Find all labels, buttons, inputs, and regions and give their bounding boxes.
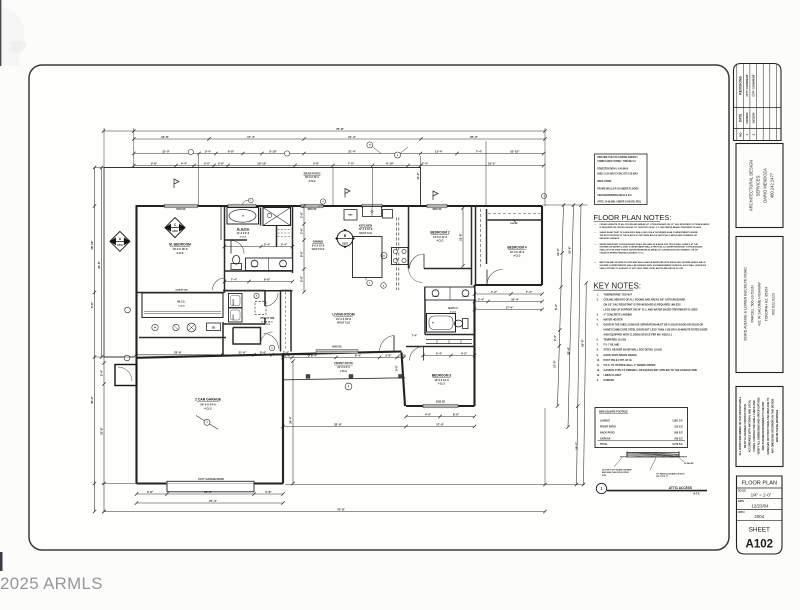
- oven box: [383, 210, 393, 219]
- window: [301, 204, 323, 208]
- sheet title block: [737, 476, 783, 554]
- scan edge artifacts top-left: [0, 0, 1, 66]
- svg-text:WATER RESISTANT GYPSUM BOARD S: WATER RESISTANT GYPSUM BOARD SHALL BE US…: [600, 243, 699, 246]
- svg-text:JOB #: JOB #: [738, 512, 745, 514]
- svg-text:4'-6": 4'-6": [425, 412, 432, 416]
- svg-text:DAMAGES OR STRUCTURAL FAILURES: DAMAGES OR STRUCTURAL FAILURES DUE TO: [767, 398, 770, 455]
- svg-text:DRYER: DRYER: [233, 313, 235, 319]
- svg-text:3,278 S.F.: 3,278 S.F.: [672, 443, 683, 446]
- svg-text:5'-4": 5'-4": [205, 149, 212, 153]
- svg-text:6'-8": 6'-8": [228, 149, 235, 153]
- detail marker 1 attic access: [596, 483, 606, 493]
- svg-text:5'-4": 5'-4": [260, 351, 267, 355]
- svg-text:F.V. 7 ISLAND: F.V. 7 ISLAND: [604, 344, 620, 347]
- svg-text:16'-10": 16'-10": [90, 240, 94, 250]
- svg-text:52'-0": 52'-0": [581, 338, 585, 346]
- bath2 hall linen: [426, 339, 472, 341]
- svg-text:21'-4": 21'-4": [348, 135, 356, 139]
- svg-text:4'-4": 4'-4": [181, 161, 188, 165]
- svg-text:FENESTRATION U-0.40 MAX: FENESTRATION U-0.40 MAX: [597, 167, 628, 170]
- section marker A/A301: [110, 231, 130, 251]
- svg-text:CEILING HEIGHTS OF ALL ROOMS A: CEILING HEIGHTS OF ALL ROOMS AND AREAS 5…: [600, 223, 711, 226]
- dimension line x=104: [103, 357, 105, 512]
- svg-text:ANY OMISSIONS OR ERRORS IN THI: ANY OMISSIONS OR ERRORS IN THIS DESIGN: [771, 399, 774, 454]
- left extension to garage bottom: [102, 483, 137, 485]
- svg-text:TEMPERED GLASS: TEMPERED GLASS: [604, 339, 627, 342]
- svg-text:7'-4": 7'-4": [476, 149, 483, 153]
- svg-text:13'-8": 13'-8": [161, 135, 169, 139]
- svg-text:15'-0": 15'-0": [162, 149, 170, 153]
- dimension line y=426.5: [283, 426, 475, 428]
- svg-text:3'-0": 3'-0": [204, 161, 211, 165]
- svg-text:30'-4": 30'-4": [566, 346, 570, 354]
- svg-text:KEY NOTES:: KEY NOTES:: [594, 281, 642, 290]
- north arrow triangles: [253, 330, 257, 337]
- svg-text:4" CONCRETE LANDING: 4" CONCRETE LANDING: [604, 314, 633, 317]
- dimension line y=281.5: [225, 281, 293, 283]
- svg-text:13'-8": 13'-8": [100, 426, 104, 434]
- svg-text:FLOOR PLAN NOTES:: FLOOR PLAN NOTES:: [594, 213, 672, 222]
- svg-text:8'-4": 8'-4": [355, 353, 362, 357]
- svg-text:3'-8": 3'-8": [313, 161, 320, 165]
- kitchen sink at window: [363, 207, 382, 217]
- svg-text:9'-0": 9'-0": [394, 364, 398, 371]
- svg-text:11'-4": 11'-4": [556, 248, 560, 256]
- revisions table block: [734, 64, 782, 141]
- kitchen island: [353, 237, 383, 278]
- svg-text:5'-6": 5'-6": [90, 301, 94, 308]
- svg-text:5'-0 X 10'-6: 5'-0 X 10'-6: [261, 321, 273, 323]
- svg-text:KITCHEN: KITCHEN: [359, 223, 372, 227]
- svg-text:10/15/24: 10/15/24: [752, 112, 756, 123]
- svg-text:12'-0 X 12'-0: 12'-0 X 12'-0: [434, 379, 449, 382]
- svg-text:ACCORDANCE WITH NATIONAL AND L: ACCORDANCE WITH NATIONAL AND LOCAL: [748, 399, 751, 452]
- bedroom4 closet rod dashed: [488, 213, 541, 215]
- svg-text:SHEET: SHEET: [749, 527, 770, 534]
- svg-text:5068 BP DW: 5068 BP DW: [175, 290, 187, 292]
- hall closet door arc: [261, 332, 273, 344]
- svg-text:A381: A381: [172, 230, 178, 233]
- svg-text:VERIFY ALL DIMENSIONS AND SPEC: VERIFY ALL DIMENSIONS AND SPECIFICATIONS: [758, 397, 761, 454]
- project address block: [736, 237, 783, 373]
- svg-text:9'-6": 9'-6": [300, 250, 304, 257]
- svg-text:TOTAL: TOTAL: [600, 443, 608, 446]
- svg-text:ATTIC ACCESS: ATTIC ACCESS: [669, 486, 692, 490]
- svg-text:A102: A102: [746, 539, 774, 551]
- svg-text:14'-0": 14'-0": [416, 172, 420, 180]
- svg-text:HONEYCOMB CORE STEEL DOOR NOT: HONEYCOMB CORE STEEL DOOR NOT LESS THAN …: [604, 329, 708, 332]
- svg-text:REF: REF: [348, 215, 353, 217]
- svg-text:ON 1/2" SAG RESISTANT GYPSUM B: ON 1/2" SAG RESISTANT GYPSUM BOARD IS RE…: [604, 303, 681, 306]
- svg-text:SHALL NOT BE USED OVER A VAPOR: SHALL NOT BE USED OVER A VAPOR RETARDER …: [600, 249, 699, 252]
- range: [392, 248, 409, 265]
- right dimension chains (slight scan lean): [558, 205, 564, 406]
- svg-text:8'-4": 8'-4": [311, 353, 318, 357]
- svg-text:# CLG: # CLG: [309, 181, 316, 183]
- window: [165, 204, 198, 208]
- svg-text:# CLG: # CLG: [240, 236, 247, 238]
- closet center dashed line: [285, 292, 287, 350]
- svg-text:2'-4": 2'-4": [281, 242, 288, 246]
- svg-text:# CLG: # CLG: [340, 371, 347, 373]
- svg-text:SHOWER COMPARTMENTS SHALL BE F: SHOWER COMPARTMENTS SHALL BE FINISHED WI…: [600, 264, 707, 267]
- svg-text:BATH 2: BATH 2: [448, 306, 458, 310]
- svg-text:# CLG: # CLG: [264, 324, 271, 326]
- svg-text:ALL WORK PERFORMED ON THIS DES: ALL WORK PERFORMED ON THIS DESIGN SHALL: [739, 396, 742, 455]
- svg-text:5'-0": 5'-0": [300, 275, 304, 282]
- svg-text:17'-4": 17'-4": [506, 305, 514, 309]
- svg-text:THERMOPANE TGD 40 P: THERMOPANE TGD 40 P: [604, 293, 633, 296]
- svg-text:FRONT PATIO: FRONT PATIO: [334, 361, 353, 365]
- svg-text:6040 SG: 6040 SG: [332, 345, 342, 348]
- svg-text:56'-0 X 10'-0: 56'-0 X 10'-0: [305, 176, 319, 179]
- svg-text:13'-6": 13'-6": [568, 245, 572, 253]
- left closet bump: [115, 365, 137, 386]
- dimension line x=94.5: [94, 168, 96, 512]
- svg-text:SHALL EXTEND TO A HEIGHT OF NO: SHALL EXTEND TO A HEIGHT OF NOT LESS THA…: [600, 267, 684, 270]
- dimension line y=494: [137, 493, 284, 495]
- svg-text:21'-0": 21'-0": [239, 351, 247, 355]
- svg-text:SLABS IN ANY PART OF A BUILDIN: SLABS IN ANY PART OF A BUILDING SHALL EN…: [600, 231, 699, 234]
- svg-text:COMPLIANCE THREE: TOW ME 5.2: COMPLIANCE THREE: TOW ME 5.2: [597, 160, 636, 163]
- svg-text:5'-4": 5'-4": [436, 351, 443, 355]
- svg-text:# CLG: # CLG: [438, 383, 445, 385]
- window: [427, 204, 447, 208]
- svg-text:30'-0": 30'-0": [90, 395, 94, 403]
- svg-text:10'-4": 10'-4": [511, 297, 519, 301]
- svg-text:M. BATH: M. BATH: [237, 227, 249, 231]
- master toilet: [231, 264, 242, 270]
- svg-text:1'-6": 1'-6": [285, 353, 292, 357]
- svg-text:5068 BP: 5068 BP: [510, 223, 518, 225]
- svg-text:5'-8": 5'-8": [147, 490, 154, 494]
- svg-text:DATE: DATE: [738, 114, 742, 122]
- bath2 vanity: [425, 287, 475, 300]
- architect info block: [736, 144, 783, 228]
- washer dryer: [229, 294, 243, 308]
- svg-text:INSULATION:: INSULATION:: [597, 180, 612, 183]
- svg-text:VAULT CLG: VAULT CLG: [312, 248, 325, 251]
- window: [228, 204, 256, 208]
- svg-text:BACK PATIO: BACK PATIO: [600, 432, 615, 435]
- svg-text:6'-10": 6'-10": [386, 161, 394, 165]
- svg-text:14'-8 X 11'-0: 14'-8 X 11'-0: [433, 236, 448, 239]
- svg-text:2004: 2004: [754, 514, 764, 519]
- svg-text:19'-2": 19'-2": [488, 161, 496, 165]
- svg-text:12.: 12.: [597, 370, 601, 372]
- rear patio outline: [104, 168, 421, 358]
- svg-text:3050 SC: 3050 SC: [432, 208, 442, 211]
- svg-text:DARIO MENDOZA: DARIO MENDOZA: [763, 168, 768, 203]
- svg-text:AND ASSUME RESPONSIBILITY FOR: AND ASSUME RESPONSIBILITY FOR ANY: [762, 401, 765, 450]
- linen shelves dashed: [278, 229, 292, 231]
- svg-text:FLOOR PLAN: FLOOR PLAN: [742, 480, 777, 486]
- svg-text:2'-4": 2'-4": [478, 297, 485, 301]
- svg-text:75'-8": 75'-8": [337, 507, 345, 511]
- svg-text:13'-4": 13'-4": [435, 149, 443, 153]
- svg-text:10'-0 X 13'-2: 10'-0 X 13'-2: [510, 251, 525, 254]
- svg-text:LEGS AND UP SUPPORT ON 24" O.C: LEGS AND UP SUPPORT ON 24" O.C. AND WATE…: [604, 308, 698, 311]
- svg-text:LIVABLE: LIVABLE: [600, 420, 610, 423]
- master shower: [263, 208, 291, 226]
- svg-text:TONOPAH AZ, 85354: TONOPAH AZ, 85354: [765, 287, 769, 322]
- svg-text:A.: A.: [597, 379, 600, 382]
- svg-text:NEW SQUARE FOOTAGE: NEW SQUARE FOOTAGE: [599, 411, 628, 414]
- kitchen leader circles: [365, 278, 367, 281]
- dimension line x=293: [292, 361, 294, 484]
- dimension line x=304: [303, 206, 305, 292]
- svg-text:1,801 S.F.: 1,801 S.F.: [672, 420, 683, 423]
- svg-text:796 S.F.: 796 S.F.: [674, 438, 683, 441]
- bedroom3 door arc: [410, 347, 424, 361]
- dimension line y=153.5: [134, 153, 544, 155]
- svg-text:SHOWER OR WATER CLOSET COMPART: SHOWER OR WATER CLOSET COMPARTMENT WALLS…: [600, 246, 704, 249]
- svg-text:602.622.6223: 602.622.6223: [772, 293, 776, 315]
- svg-text:8'-4": 8'-4": [554, 303, 558, 310]
- svg-text:2'-4": 2'-4": [553, 334, 557, 341]
- svg-text:393RD AVENUE & LOWER BUCKEYE R: 393RD AVENUE & LOWER BUCKEYE ROAD: [744, 267, 748, 341]
- svg-text:11.: 11.: [597, 365, 600, 367]
- svg-text:33'-8": 33'-8": [97, 260, 101, 268]
- svg-text:9'-6 X 13'-8: 9'-6 X 13'-8: [312, 244, 325, 247]
- svg-text:SERVICES:: SERVICES:: [756, 175, 761, 197]
- svg-text:PARCEL: 506-33-531N: PARCEL: 506-33-531N: [751, 285, 755, 322]
- window: [316, 350, 358, 354]
- svg-text:7'-4": 7'-4": [412, 334, 418, 338]
- svg-text:25'-0": 25'-0": [470, 135, 478, 139]
- svg-text:2'-6": 2'-6": [385, 353, 392, 357]
- svg-text:75'-8": 75'-8": [336, 127, 344, 131]
- svg-text:FRAME WALLS R-19 UNDER FLOORS: FRAME WALLS R-19 UNDER FLOORS: [597, 188, 639, 191]
- svg-text:THE BOTTOM EDGE OF THE SLAB IS: THE BOTTOM EDGE OF THE SLAB IS 8 LOW FIN…: [600, 234, 698, 237]
- svg-text:12'-1 X 13'-8: 12'-1 X 13'-8: [359, 228, 373, 231]
- svg-text:16'-0": 16'-0": [204, 490, 212, 494]
- dimension line y=511.5: [104, 511, 545, 513]
- svg-text:2 CAR GARAGE: 2 CAR GARAGE: [195, 398, 222, 402]
- svg-text:UTILITY RM: UTILITY RM: [260, 316, 275, 320]
- svg-text:DOOR IN THE SHELL/GARAGE SEPAR: DOOR IN THE SHELL/GARAGE SEPARATION MUST…: [604, 324, 704, 327]
- svg-text:# CLG: # CLG: [514, 255, 521, 257]
- svg-text:LINEN CLOSET: LINEN CLOSET: [604, 374, 622, 377]
- svg-text:PROVIDE THE FOLLOWING ENERGY: PROVIDE THE FOLLOWING ENERGY: [597, 157, 638, 159]
- svg-text:2X RAILER: 2X RAILER: [684, 462, 694, 465]
- svg-text:11'-6": 11'-6": [459, 233, 463, 241]
- svg-text:23'-8": 23'-8": [174, 351, 182, 355]
- svg-text:HOOD VENT ABOVE RANGE: HOOD VENT ABOVE RANGE: [604, 354, 638, 357]
- pennant flags: [174, 179, 179, 188]
- svg-text:WALKING SURFACE.: WALKING SURFACE.: [600, 237, 621, 240]
- hall ceiling fixtures: [152, 324, 158, 330]
- svg-text:AND SEAL PLAN FOR ACCESS: AND SEAL PLAN FOR ACCESS: [602, 471, 630, 474]
- svg-text:2'-8": 2'-8": [300, 227, 304, 234]
- svg-text:SHGC 0.25 MAX CATALYZE 0.55 MA: SHGC 0.25 MAX CATALYZE 0.55 MAX: [597, 173, 638, 176]
- square footage table: [595, 408, 688, 448]
- scan edge sliver: [0, 552, 3, 571]
- window: [362, 204, 382, 208]
- fridge: [344, 210, 357, 221]
- svg-text:1/2" PARTICLE BOARD LID WITH: 1/2" PARTICLE BOARD LID WITH: [656, 473, 685, 476]
- section marker B/A381 circle: [335, 229, 355, 249]
- svg-text:10'-10": 10'-10": [257, 161, 267, 165]
- svg-text:GYP TYPE "X": GYP TYPE "X": [656, 476, 669, 478]
- svg-text:3'-8": 3'-8": [218, 161, 225, 165]
- svg-text:SCALE: SCALE: [738, 489, 746, 492]
- svg-text:PAINTED: PAINTED: [604, 379, 615, 382]
- svg-text:24'-0 X 8'-0: 24'-0 X 8'-0: [337, 366, 350, 369]
- svg-text:POST POLE LTYP. OF 3L: POST POLE LTYP. OF 3L: [604, 359, 633, 362]
- svg-text:5050 SC: 5050 SC: [176, 208, 186, 211]
- energy compliance note box: [595, 154, 648, 205]
- svg-text:STEEL HEADER 6/100P WALL BCE D: STEEL HEADER 6/100P WALL BCE DETAIL 1/A1…: [604, 349, 663, 352]
- dimension line y=246.5: [225, 246, 293, 248]
- disclaimer block: [736, 387, 783, 467]
- sheet border frame: [29, 65, 729, 550]
- svg-text:431 W SALOME HIGHWAY: 431 W SALOME HIGHWAY: [758, 281, 762, 326]
- svg-text:24'-4": 24'-4": [289, 415, 293, 423]
- misc circles on plan: [248, 198, 253, 203]
- svg-text:7'-4": 7'-4": [231, 277, 238, 281]
- svg-text:9'-8": 9'-8": [151, 161, 158, 165]
- svg-text:GASKEN TYPE 5.3 FIREWALL OR EQ: GASKEN TYPE 5.3 FIREWALL OR EQUIVALENT A…: [604, 369, 698, 372]
- svg-text:480.242.2477: 480.242.2477: [770, 172, 775, 198]
- section marker C/A381: [165, 218, 185, 238]
- dimension line x=101.5: [101, 168, 103, 358]
- svg-text:FRONT PATIO: FRONT PATIO: [600, 426, 616, 429]
- svg-text:5/8 TYPE X GYP BOARD TAPERED: 5/8 TYPE X GYP BOARD TAPERED: [602, 469, 632, 472]
- svg-text:32'-8": 32'-8": [334, 422, 342, 426]
- front patio outline and posts: [283, 378, 405, 380]
- svg-text:REAR PATIO: REAR PATIO: [304, 171, 322, 175]
- svg-text:DINING: DINING: [313, 240, 324, 244]
- svg-text:13'-6 X 16'-8: 13'-6 X 16'-8: [173, 247, 188, 251]
- dimension line y=354.8: [136, 354, 310, 356]
- svg-text:WATER HEATER: WATER HEATER: [604, 319, 623, 322]
- svg-text:NO: NO: [738, 132, 742, 137]
- svg-text:ARCHITECTURAL DESIGN: ARCHITECTURAL DESIGN: [749, 160, 754, 211]
- svg-text:# CLG: # CLG: [437, 240, 444, 242]
- svg-text:# CLG: # CLG: [204, 408, 211, 411]
- dimension line y=294: [475, 293, 543, 295]
- svg-text:10.: 10.: [597, 360, 601, 362]
- hall door arc near kitchen: [409, 269, 423, 283]
- svg-text:BEDROOM 3: BEDROOM 3: [432, 374, 452, 378]
- garage door opening: [167, 481, 254, 492]
- svg-text:120 S.F.: 120 S.F.: [674, 426, 683, 429]
- svg-text:DATE: DATE: [738, 500, 745, 503]
- svg-text:12/23/04: 12/23/04: [751, 503, 769, 508]
- dimension line y=357.5: [283, 357, 404, 359]
- dimension line y=131: [104, 130, 546, 132]
- svg-text:14'-2": 14'-2": [575, 441, 579, 449]
- svg-text:16'X7' GARAGE DOOR: 16'X7' GARAGE DOOR: [198, 478, 224, 481]
- svg-text:27'-4": 27'-4": [209, 499, 217, 503]
- svg-text:4'-0": 4'-0": [461, 351, 468, 355]
- svg-text:2'-6": 2'-6": [300, 211, 304, 218]
- dimension line y=503: [137, 502, 284, 504]
- svg-text:09/28/24: 09/28/24: [745, 112, 749, 123]
- svg-text:5'-8": 5'-8": [265, 490, 272, 494]
- svg-text:LIVING ROOM: LIVING ROOM: [332, 313, 354, 317]
- master bath door arc: [231, 241, 244, 254]
- svg-text:VAULT CLG: VAULT CLG: [337, 322, 350, 325]
- bath2 tub: [427, 314, 456, 333]
- svg-text:21'-0 X 19'-8: 21'-0 X 19'-8: [336, 317, 351, 321]
- svg-text:BATHTUB AND SHOWER FLOORS AND: BATHTUB AND SHOWER FLOORS AND WALLS ABOV…: [600, 261, 706, 264]
- window: [423, 404, 458, 408]
- svg-text:8'-6": 8'-6": [453, 412, 460, 416]
- dimension line y=309.5: [475, 309, 543, 311]
- svg-text:1: 1: [600, 486, 603, 491]
- master bedroom entry arc: [213, 278, 225, 290]
- svg-text:M. BEDROOM: M. BEDROOM: [169, 243, 191, 247]
- svg-text:W.I.C.: W.I.C.: [177, 300, 185, 304]
- WIC shelf line: [144, 311, 221, 313]
- svg-text:2025 ARMLS: 2025 ARMLS: [0, 574, 103, 593]
- dimension line y=416.5: [406, 416, 475, 418]
- svg-text:CODES. CONTRACTOR SHALL CHECK: CODES. CONTRACTOR SHALL CHECK AND: [753, 400, 756, 452]
- svg-text:SD: SD: [212, 325, 216, 329]
- svg-text:5'-4": 5'-4": [100, 369, 104, 376]
- utility door arc: [265, 293, 278, 306]
- svg-text:11'-0 X 9'-6: 11'-0 X 9'-6: [237, 232, 250, 235]
- dimension line x=463: [462, 208, 464, 266]
- svg-text:7'-4": 7'-4": [526, 290, 533, 294]
- svg-text:N.T.S.: N.T.S.: [693, 492, 700, 495]
- svg-text:3050 SC: 3050 SC: [307, 208, 317, 211]
- dimension line y=165.5: [134, 165, 544, 167]
- svg-text:9'-8": 9'-8": [264, 277, 271, 281]
- svg-text:24'-0 X 24'-0: 24'-0 X 24'-0: [200, 402, 216, 406]
- bedroom4 closet ticks: [513, 220, 516, 223]
- svg-text:1'-10": 1'-10": [398, 353, 406, 357]
- svg-text:17'-4": 17'-4": [247, 135, 255, 139]
- master vanity two sinks: [246, 258, 293, 271]
- svg-text:AND/OR THESE DRAWINGS: AND/OR THESE DRAWINGS: [776, 409, 779, 442]
- svg-text:BE BY A LICENSED CONTRACTOR IN: BE BY A LICENSED CONTRACTOR IN: [744, 404, 747, 448]
- bedroom4 door arc: [487, 270, 503, 286]
- svg-text:CEILINGS WHERE FRAMING EXCEEDS: CEILINGS WHERE FRAMING EXCEEDS 12 O.C.: [600, 251, 645, 254]
- svg-text:GARAGE: GARAGE: [600, 438, 611, 441]
- svg-text:2'-4": 2'-4": [264, 242, 271, 246]
- svg-text:21'-4": 21'-4": [348, 149, 356, 153]
- entry door: [393, 336, 395, 352]
- exterior walls: [136, 206, 543, 484]
- svg-text:17'-0": 17'-0": [436, 422, 444, 426]
- svg-text:13.: 13.: [597, 375, 601, 377]
- svg-text:10'-10": 10'-10": [510, 149, 520, 153]
- dimension line y=301.5: [475, 301, 543, 303]
- svg-text:CEILING HEIGHTS OF ALL ROOMS A: CEILING HEIGHTS OF ALL ROOMS AND AREAS 5…: [604, 298, 686, 301]
- svg-text:BEDROOM 4: BEDROOM 4: [507, 246, 527, 250]
- svg-text:2'-4": 2'-4": [422, 161, 429, 165]
- svg-text:ATTIC: R-49 MIN. UNDER 24 IN R: ATTIC: R-49 MIN. UNDER 24 IN RD. REQ: [597, 200, 641, 203]
- svg-text:CITY COMMENT: CITY COMMENT: [745, 74, 749, 97]
- bedroom2 door arc: [410, 254, 425, 269]
- svg-text:7'-2": 7'-2": [491, 290, 498, 294]
- svg-text:A301: A301: [117, 244, 123, 247]
- svg-text:# CLG: # CLG: [178, 306, 185, 308]
- svg-text:CITY COMMENT: CITY COMMENT: [752, 74, 756, 97]
- svg-text:REVISIONS: REVISIONS: [738, 76, 742, 95]
- svg-text:560 S.F.: 560 S.F.: [674, 432, 683, 435]
- svg-text:AND EQUIPPED WITH CLOSING DEVI: AND EQUIPPED WITH CLOSING DEVICE PER INV…: [604, 334, 673, 337]
- attic access detail drawing: [614, 451, 687, 470]
- dimension line y=139: [134, 138, 545, 140]
- svg-text:CEILING/DEMISING WALLS R-0: CEILING/DEMISING WALLS R-0: [597, 194, 632, 197]
- svg-text:VAULT CLG: VAULT CLG: [359, 232, 372, 235]
- svg-text:5'-10": 5'-10": [269, 149, 277, 153]
- svg-text:A381: A381: [342, 243, 349, 246]
